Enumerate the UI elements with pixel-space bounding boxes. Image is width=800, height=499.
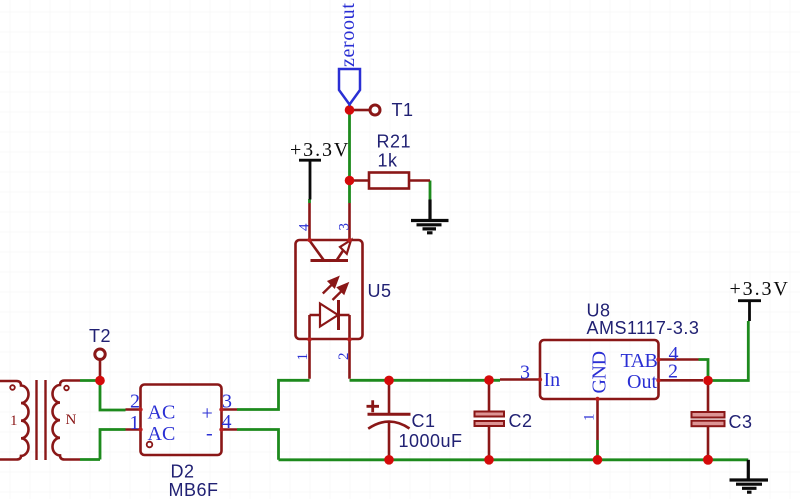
svg-text:1: 1	[130, 412, 140, 434]
svg-text:R21: R21	[377, 132, 412, 152]
svg-text:+3.3V: +3.3V	[730, 278, 790, 300]
svg-text:3: 3	[337, 223, 353, 231]
svg-text:N: N	[66, 412, 77, 428]
svg-text:2: 2	[130, 391, 140, 413]
svg-text:T1: T1	[392, 100, 414, 120]
svg-text:1000uF: 1000uF	[399, 431, 463, 451]
svg-text:4: 4	[222, 411, 232, 433]
svg-text:-: -	[206, 423, 213, 445]
svg-text:1: 1	[582, 414, 598, 422]
svg-text:In: In	[544, 369, 561, 391]
svg-text:MB6F: MB6F	[169, 480, 219, 499]
svg-text:3: 3	[222, 390, 232, 412]
svg-text:U5: U5	[368, 281, 392, 301]
svg-text:Out: Out	[627, 371, 657, 393]
svg-text:4: 4	[297, 223, 313, 231]
svg-text:+: +	[202, 403, 213, 425]
svg-text:+3.3V: +3.3V	[290, 139, 350, 161]
svg-text:1: 1	[10, 413, 18, 429]
svg-text:GND: GND	[589, 351, 611, 393]
svg-text:T2: T2	[89, 326, 111, 346]
svg-text:D2: D2	[171, 462, 195, 482]
svg-text:AC: AC	[148, 402, 176, 424]
svg-text:1: 1	[295, 353, 311, 361]
svg-text:C2: C2	[509, 411, 533, 431]
svg-text:AC: AC	[148, 423, 176, 445]
svg-text:2: 2	[336, 353, 352, 361]
svg-text:1k: 1k	[378, 151, 399, 171]
svg-text:TAB: TAB	[621, 350, 658, 372]
svg-text:3: 3	[520, 362, 530, 384]
svg-text:C1: C1	[412, 411, 436, 431]
svg-text:2: 2	[668, 361, 678, 383]
svg-text:AMS1117-3.3: AMS1117-3.3	[587, 318, 700, 338]
svg-text:zeroout: zeroout	[337, 2, 359, 67]
svg-text:C3: C3	[729, 412, 753, 432]
